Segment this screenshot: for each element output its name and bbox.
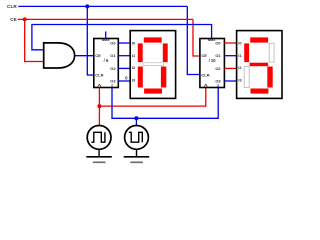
display U3 segment b lit bbox=[163, 43, 168, 62]
counter U4 clock triangle mark bbox=[204, 84, 207, 86]
junction clock1 dot bbox=[97, 104, 101, 108]
display U5 segment b unlit bbox=[269, 43, 274, 62]
wire clock1 net horizontal to counter2 bbox=[99, 88, 205, 107]
counter U2 labels bbox=[95, 37, 116, 84]
wire AND output to counter1 CE bbox=[75, 55, 94, 57]
wire clock2 stub down to clock source bbox=[135, 118, 137, 125]
7-segment display U5 box bbox=[237, 31, 282, 99]
node value label 0 bbox=[125, 75, 128, 80]
display U3 segment e lit bbox=[138, 67, 143, 88]
7-segment display U3 box bbox=[130, 31, 175, 99]
counter U2 pin2 tiny mark bbox=[111, 83, 113, 87]
wire CLR vertical to counter2 bbox=[187, 6, 200, 74]
wire counter2 O2 to display2 I2 bbox=[224, 67, 236, 69]
svg-text:CLR: CLR bbox=[7, 4, 17, 9]
display U5 segment g lit bbox=[250, 63, 269, 66]
counter U2 Max pin stub bbox=[105, 32, 107, 39]
clock source CLK2 circle bbox=[125, 125, 149, 149]
display U5 segment f lit bbox=[244, 43, 249, 62]
display U5 segment d lit bbox=[251, 89, 269, 94]
junction clock2 dot bbox=[134, 116, 138, 120]
wire CE horizontal top bbox=[18, 18, 193, 20]
ground GND2 bbox=[124, 149, 150, 162]
display U3 segment g unlit bbox=[143, 63, 164, 66]
wire counter2 O1 to display2 I1 bbox=[224, 55, 236, 57]
ground GND1 bbox=[86, 149, 112, 162]
svg-text:O0: O0 bbox=[215, 41, 220, 46]
clock source CLK2 waveform bbox=[129, 132, 143, 142]
svg-text:CLR: CLR bbox=[95, 73, 103, 78]
svg-text:/ 10: / 10 bbox=[209, 58, 217, 63]
junction CE dot bbox=[23, 17, 27, 21]
svg-text:CE: CE bbox=[95, 53, 101, 58]
svg-text:CE: CE bbox=[10, 17, 17, 22]
svg-text:O2: O2 bbox=[110, 66, 116, 71]
wire CLR vertical to counter1 bbox=[87, 6, 93, 75]
svg-text:O1: O1 bbox=[215, 53, 221, 58]
counter U4 labels bbox=[201, 37, 221, 84]
display U5 segment a lit bbox=[250, 37, 268, 42]
svg-text:O2: O2 bbox=[215, 66, 221, 71]
wire clock1 stub down to clock source bbox=[98, 106, 100, 126]
display U3 segment a lit bbox=[144, 37, 162, 42]
svg-text:2: 2 bbox=[217, 83, 219, 87]
junction CLR dot bbox=[85, 4, 89, 8]
wire Max2 feedback to AND input bbox=[32, 25, 212, 50]
svg-text:/ 6: / 6 bbox=[104, 58, 109, 63]
display U3 segment d lit bbox=[144, 89, 162, 94]
wire counter1 pin2 down bbox=[112, 88, 218, 119]
node CLR label bbox=[7, 4, 17, 9]
svg-text:CLR: CLR bbox=[201, 73, 209, 78]
counter U2 clock triangle mark bbox=[98, 84, 101, 86]
svg-text:CE: CE bbox=[201, 53, 207, 58]
svg-text:O1: O1 bbox=[110, 53, 116, 58]
display U5 segment e unlit bbox=[244, 67, 249, 88]
display U5 input labels bbox=[238, 41, 242, 83]
wire CE to AND input bbox=[25, 19, 44, 61]
node CE label bbox=[10, 17, 17, 22]
wire counter2 O0 to display2 I0 bbox=[224, 42, 236, 44]
counter U4 /10 box bbox=[200, 39, 225, 88]
wire counter1 clock pin down bbox=[98, 88, 100, 107]
counter U2 /6 box bbox=[94, 39, 119, 88]
wire CLR horizontal top bbox=[18, 5, 187, 7]
clock source CLK1 waveform bbox=[91, 132, 105, 142]
counter U4 pin2 tiny mark bbox=[217, 83, 219, 87]
display U3 input labels bbox=[132, 41, 136, 83]
wire counter1 O3 to display1 I3 bbox=[118, 80, 130, 82]
op-amp AND gate U1 bbox=[44, 43, 75, 68]
display U3 segment f lit bbox=[138, 43, 143, 62]
svg-text:Max: Max bbox=[102, 37, 111, 42]
wire counter1 O0 to display1 I0 bbox=[118, 42, 130, 44]
wire CE to counter2 CE bbox=[193, 19, 200, 56]
svg-text:2: 2 bbox=[111, 83, 113, 87]
wire counter1 O1 to display1 I1 bbox=[118, 55, 130, 57]
svg-text:O0: O0 bbox=[110, 41, 115, 46]
clock source CLK1 circle bbox=[87, 125, 111, 149]
wire counter2 O3 to display2 I3 bbox=[224, 80, 236, 82]
wire counter1 O2 to display1 I2 bbox=[118, 67, 130, 69]
display U5 segment c lit bbox=[267, 67, 272, 88]
display U3 segment c lit bbox=[161, 67, 166, 88]
